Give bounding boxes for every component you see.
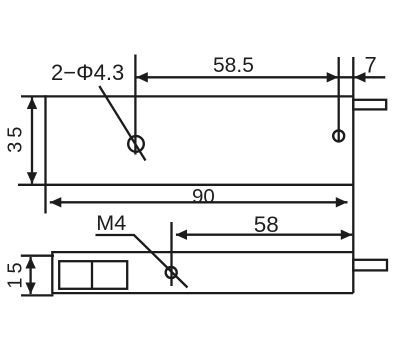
bottom connector protrusion — [353, 260, 387, 271]
svg-text:90: 90 — [192, 185, 215, 208]
svg-text:58.5: 58.5 — [213, 54, 254, 77]
right edge long vertical (extends up for 7 dim and down to bottom view) — [352, 57, 354, 293]
arrowhead 90 left — [50, 197, 62, 207]
dimension line 15 — [29, 257, 31, 294]
hole left (2-phi4.3) — [128, 136, 144, 152]
dimension line 90 — [50, 201, 348, 203]
M4 leader underline and diagonal — [96, 235, 188, 288]
bottom view body rectangle — [52, 251, 353, 294]
arrowhead 15 down — [25, 283, 35, 295]
sensing window with divider — [59, 261, 127, 289]
svg-text:2−Φ4.3: 2−Φ4.3 — [51, 60, 124, 85]
dimension line 35 — [31, 98, 33, 184]
top view body rectangle — [18, 57, 353, 293]
extension line through M4 hole — [170, 222, 172, 286]
arrowhead 58 right — [341, 230, 353, 240]
svg-text:58: 58 — [254, 212, 279, 237]
arrowhead 58 left — [176, 230, 188, 240]
arrowhead 90 right — [336, 197, 348, 207]
M4 hole circle — [166, 267, 177, 278]
arrowhead 35 down — [27, 172, 37, 184]
svg-text:15: 15 — [5, 258, 27, 288]
left edge with extension down for 90 dim — [44, 95, 46, 213]
arrowhead 58.5 right — [327, 72, 339, 82]
15 dim top extension line — [21, 255, 54, 257]
arrowhead 15 up — [25, 257, 35, 269]
svg-text:35: 35 — [5, 123, 27, 153]
bottom edge with left extension for 35 dim — [18, 184, 353, 186]
svg-text:M4: M4 — [96, 211, 126, 235]
top edge with left extension for 35 dim — [21, 95, 353, 97]
arrowhead 7 pointing left at right edge — [354, 72, 366, 82]
dimension line 58 — [176, 234, 352, 236]
svg-text:7: 7 — [365, 53, 377, 78]
arrowhead 58.5 left — [136, 72, 148, 82]
hole right — [333, 130, 344, 141]
dimension line 58.5 and 7 — [136, 76, 385, 78]
top connector protrusion — [353, 100, 386, 110]
extension line through left hole — [134, 55, 136, 155]
extension line through right hole — [338, 57, 340, 143]
arrowhead 35 up — [27, 98, 37, 110]
15 dim bottom extension line — [21, 294, 54, 296]
leader line from 2-phi4.3 label to left hole — [99, 86, 145, 161]
